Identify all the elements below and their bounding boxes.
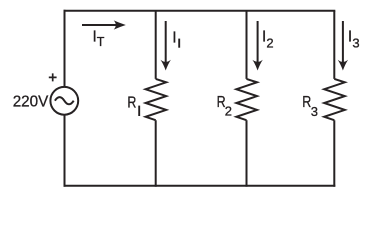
polarity mark + of source (49, 73, 57, 81)
current arrow I2 (downward) (252, 21, 262, 71)
svg-text:2: 2 (266, 35, 273, 50)
svg-text:I: I (172, 29, 176, 46)
wire branch 1 upper (top bus to R1) (155, 11, 157, 79)
wire right side lower (R3 to bottom bus) (333, 120, 335, 187)
label IT (93, 28, 105, 49)
current arrow IT (total current, rightward) (82, 20, 126, 29)
svg-text:2: 2 (225, 104, 232, 119)
current arrow I1 (downward) (161, 21, 171, 71)
svg-text:3: 3 (311, 104, 318, 119)
svg-text:220V: 220V (13, 94, 49, 111)
current arrow I3 (downward) (338, 21, 348, 71)
label R2 (217, 94, 232, 119)
resistor R3 (324, 79, 345, 120)
wire branch 2 lower (R2 to bottom bus) (246, 120, 248, 187)
svg-text:3: 3 (352, 36, 359, 51)
label R3 (302, 94, 318, 119)
wire branch 2 upper (top bus to R2) (246, 11, 248, 79)
svg-text:R: R (127, 95, 136, 112)
svg-text:T: T (97, 35, 105, 49)
label I1 (172, 29, 179, 47)
resistor R1 (146, 79, 167, 120)
resistor R2 (236, 79, 257, 120)
wire branch 1 lower (R1 to bottom bus) (155, 120, 157, 187)
wire left side lower (source to bottom bus) (64, 115, 66, 187)
label I2 (262, 29, 274, 51)
wire left side upper (top bus to source) (64, 10, 66, 87)
wire bottom bus (64, 185, 336, 187)
wire right side upper (top bus to R3) (333, 11, 335, 79)
voltage source V1 (AC sine source) (50, 87, 78, 115)
wire top bus (64, 10, 336, 12)
label I3 (348, 29, 360, 51)
label R1 (127, 95, 139, 117)
